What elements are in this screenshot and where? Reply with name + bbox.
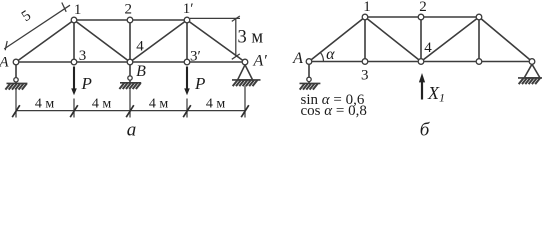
- support A (link support, truss b): [300, 64, 321, 89]
- svg-text:cos α = 0,8: cos α = 0,8: [301, 103, 367, 119]
- svg-text:4 м: 4 м: [149, 97, 169, 112]
- member 1'-A': [187, 20, 245, 62]
- svg-text:4 м: 4 м: [206, 97, 226, 112]
- member A-1: [16, 20, 74, 62]
- support A' (pin support, truss a): [232, 65, 261, 86]
- node A (truss b): [306, 59, 312, 65]
- node 5 (truss b, unlabeled): [476, 59, 482, 65]
- svg-text:4 м: 4 м: [92, 97, 112, 112]
- angle alpha arc at node A (truss b): [320, 53, 323, 62]
- node 3 (truss b): [362, 59, 368, 65]
- node A': [242, 59, 248, 65]
- svg-text:1: 1: [74, 2, 82, 18]
- svg-text:а: а: [127, 120, 137, 139]
- svg-text:α: α: [326, 46, 335, 63]
- svg-text:1′: 1′: [183, 1, 194, 17]
- member B-1': [130, 20, 187, 62]
- node B/4: [127, 59, 133, 65]
- node 3': [184, 59, 190, 65]
- member 1-3: [73, 20, 75, 62]
- load P at node 3': [184, 67, 205, 96]
- dimension chain 4x4 m (bottom of truss a): [16, 86, 245, 118]
- wire: top chord 1-2-1' (truss a): [74, 19, 187, 21]
- member top3 vertical (truss b): [478, 17, 480, 62]
- svg-text:3 м: 3 м: [238, 28, 264, 48]
- svg-text:5: 5: [19, 8, 34, 25]
- support B (link support, truss a): [119, 65, 141, 89]
- node 1 (truss b): [362, 14, 368, 20]
- member top3-4 diagonal (truss b): [421, 17, 479, 62]
- svg-text:X1: X1: [427, 83, 445, 105]
- wire: bottom chord A-3-4-5-end (truss b): [309, 61, 532, 63]
- wire: top chord 1-2-3 (truss b): [365, 16, 479, 18]
- node 4 (truss b): [418, 59, 424, 65]
- node 3: [71, 59, 77, 65]
- svg-text:4: 4: [136, 39, 144, 55]
- member 1-4 diagonal (truss b): [365, 17, 421, 62]
- wire: bottom chord A-3-B-3'-A' (truss a): [16, 61, 245, 63]
- node A: [13, 59, 19, 65]
- member 2-B: [129, 20, 131, 62]
- svg-text:4: 4: [424, 40, 432, 56]
- svg-text:A′: A′: [253, 53, 268, 70]
- node 2 (truss b): [418, 14, 424, 20]
- dimension 3 m (vertical, right of truss a): [190, 16, 240, 59]
- svg-text:1: 1: [363, 0, 371, 15]
- dimension 5 (inclined, along A-1): [4, 3, 70, 51]
- svg-text:A: A: [292, 50, 303, 67]
- svg-text:P: P: [81, 74, 92, 93]
- node 1': [184, 17, 190, 23]
- svg-text:2: 2: [125, 2, 133, 18]
- member A-1 (truss b): [309, 17, 365, 62]
- load P at node 3: [71, 67, 92, 96]
- member 2-4 vertical (truss b): [420, 17, 422, 62]
- svg-text:3: 3: [361, 68, 369, 84]
- member 1-B: [74, 20, 130, 62]
- member 1'-3': [186, 20, 188, 62]
- svg-text:P: P: [194, 74, 205, 93]
- support at right end (pin support, truss b): [518, 64, 542, 84]
- svg-text:б: б: [420, 120, 431, 139]
- member 1-3 vertical (truss b): [364, 17, 366, 62]
- member top3-end diagonal (truss b): [479, 17, 532, 62]
- support A (link support, truss a): [5, 65, 27, 90]
- svg-text:3: 3: [79, 48, 87, 64]
- node top3 (truss b): [476, 14, 482, 20]
- node 2: [127, 17, 133, 23]
- svg-text:3′: 3′: [190, 49, 201, 65]
- svg-text:4 м: 4 м: [35, 97, 55, 112]
- svg-text:A: A: [0, 55, 9, 71]
- force X1 arrow at node 4: [419, 73, 445, 105]
- node end (truss b): [529, 59, 535, 65]
- svg-text:B: B: [136, 63, 146, 80]
- node 1: [71, 17, 77, 23]
- svg-text:2: 2: [419, 0, 427, 15]
